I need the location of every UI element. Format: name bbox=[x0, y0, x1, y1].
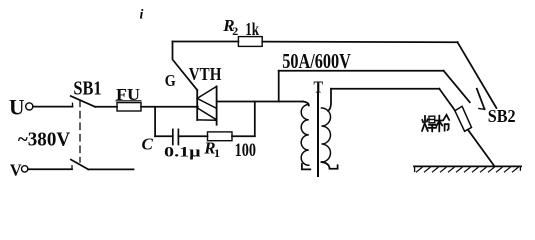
svg-text:i: i bbox=[140, 7, 144, 22]
svg-text:100: 100 bbox=[235, 140, 256, 161]
svg-text:FU: FU bbox=[116, 85, 140, 104]
svg-text:VTH: VTH bbox=[189, 64, 222, 84]
svg-text:1k: 1k bbox=[245, 19, 259, 39]
svg-text:SB2: SB2 bbox=[488, 106, 516, 126]
svg-text:G: G bbox=[165, 71, 176, 90]
svg-text:2: 2 bbox=[232, 24, 238, 38]
svg-text:~380V: ~380V bbox=[18, 128, 71, 150]
svg-text:SB1: SB1 bbox=[73, 77, 101, 99]
svg-text:50A/600V: 50A/600V bbox=[282, 49, 351, 73]
svg-text:V: V bbox=[10, 161, 22, 180]
svg-text:0.1μ: 0.1μ bbox=[164, 143, 201, 160]
svg-text:U: U bbox=[9, 95, 25, 120]
svg-text:1: 1 bbox=[214, 146, 220, 160]
svg-text:T: T bbox=[314, 77, 324, 96]
svg-text:C: C bbox=[142, 135, 154, 154]
